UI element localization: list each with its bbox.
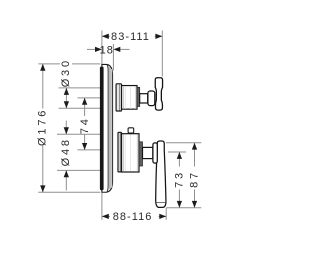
svg-text:74: 74 bbox=[79, 116, 91, 134]
svg-text:88-116: 88-116 bbox=[113, 211, 153, 223]
svg-text:Ø176: Ø176 bbox=[36, 108, 48, 146]
svg-text:87: 87 bbox=[189, 170, 201, 188]
svg-text:18: 18 bbox=[100, 45, 114, 57]
svg-text:83-111: 83-111 bbox=[111, 31, 150, 43]
svg-text:Ø30: Ø30 bbox=[60, 58, 72, 87]
svg-text:Ø48: Ø48 bbox=[60, 137, 72, 166]
svg-text:73: 73 bbox=[174, 170, 186, 188]
